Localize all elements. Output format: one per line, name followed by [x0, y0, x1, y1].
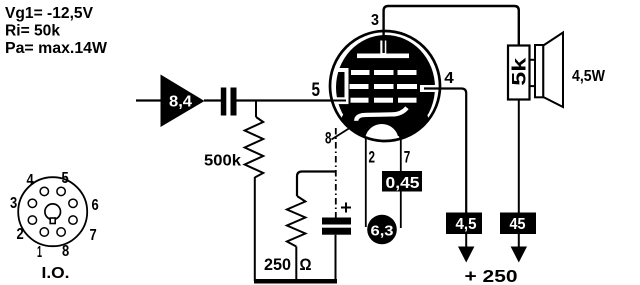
capacitor C2 electrolytic	[322, 203, 351, 282]
anode top bar white	[357, 54, 409, 59]
pin 4 white slot	[420, 85, 437, 92]
cathode smile white	[356, 108, 407, 121]
svg-text:I.O.: I.O.	[42, 265, 70, 282]
svg-text:8,4: 8,4	[169, 94, 192, 111]
capacitor C1 coupling	[221, 88, 237, 116]
wire triangle to capacitor	[204, 99, 221, 101]
wire pin 3 anode to top	[384, 6, 519, 53]
amplifier driver triangle 8,4	[161, 75, 205, 128]
svg-text:6: 6	[92, 197, 100, 214]
svg-text:Ω: Ω	[300, 256, 312, 274]
resistor R2 250 ohm cathode	[264, 196, 312, 281]
pin 5 white slot	[331, 97, 349, 104]
wire capacitor to grid pin 5	[237, 99, 333, 101]
label 45 box screen voltage	[500, 213, 536, 235]
socket pin holes	[40, 187, 48, 195]
svg-text:8: 8	[325, 130, 332, 148]
wire 5k to 45 arrow	[518, 100, 520, 214]
svg-text:7: 7	[404, 148, 411, 167]
wire cathode horizontal	[297, 172, 336, 197]
svg-text:+ 250: + 250	[465, 266, 518, 285]
svg-text:4,5W: 4,5W	[572, 68, 606, 85]
node 6,3 heater voltage circle	[367, 215, 397, 245]
svg-text:250: 250	[264, 256, 291, 274]
svg-text:3: 3	[371, 12, 379, 29]
pin 3 white slot	[380, 41, 386, 54]
svg-text:Pa= max.14W: Pa= max.14W	[5, 40, 108, 57]
svg-text:Ri= 50k: Ri= 50k	[5, 23, 60, 40]
svg-text:6,3: 6,3	[371, 223, 394, 240]
svg-text:2: 2	[369, 148, 376, 167]
svg-text:45: 45	[510, 216, 526, 233]
svg-text:3: 3	[10, 195, 18, 212]
tube glass envelope circle	[330, 31, 440, 141]
svg-text:0,45: 0,45	[386, 175, 420, 192]
svg-text:7: 7	[90, 227, 97, 244]
label 0,45 heater current box	[382, 171, 422, 192]
grid dashes row 2	[350, 84, 369, 89]
leader line pin 8	[332, 127, 353, 140]
wire pin 7 heater	[400, 138, 402, 228]
svg-text:4: 4	[444, 70, 454, 87]
speaker LS1	[529, 33, 563, 108]
ground rail bottom	[254, 279, 337, 284]
wire pin 4 screen grid	[424, 89, 466, 214]
svg-text:5k: 5k	[510, 57, 531, 86]
grid dashes row 3	[351, 98, 369, 103]
svg-text:Vg1= -12,5V: Vg1= -12,5V	[5, 5, 93, 22]
svg-text:5: 5	[62, 170, 70, 187]
label 4,5 box anode voltage	[446, 213, 482, 235]
svg-text:8: 8	[62, 243, 70, 260]
svg-text:1: 1	[37, 244, 42, 261]
socket base diagram octal	[10, 170, 99, 282]
resistor R1 500k grid leak	[204, 101, 263, 282]
wire pin 2 heater	[365, 137, 367, 227]
grid 1 side rod white bracket	[345, 68, 349, 103]
svg-text:2: 2	[17, 226, 24, 243]
heater dome white	[364, 123, 400, 159]
svg-text:4,5: 4,5	[456, 216, 477, 233]
arrow anode supply	[458, 234, 474, 263]
svg-text:500k: 500k	[204, 153, 241, 170]
svg-text:4: 4	[27, 172, 35, 189]
arrow screen supply	[511, 234, 527, 263]
tube V1 envelope and electrodes	[330, 31, 440, 159]
grid dashes row 1	[351, 70, 370, 75]
wire pin 5 into tube	[326, 100, 346, 102]
anode blob black interior	[336, 35, 435, 140]
svg-text:5: 5	[312, 80, 321, 101]
resistor R3 5k output transformer primary	[508, 46, 531, 100]
wire input left	[136, 99, 161, 101]
wire dash-dot cathode from tube	[335, 128, 337, 218]
